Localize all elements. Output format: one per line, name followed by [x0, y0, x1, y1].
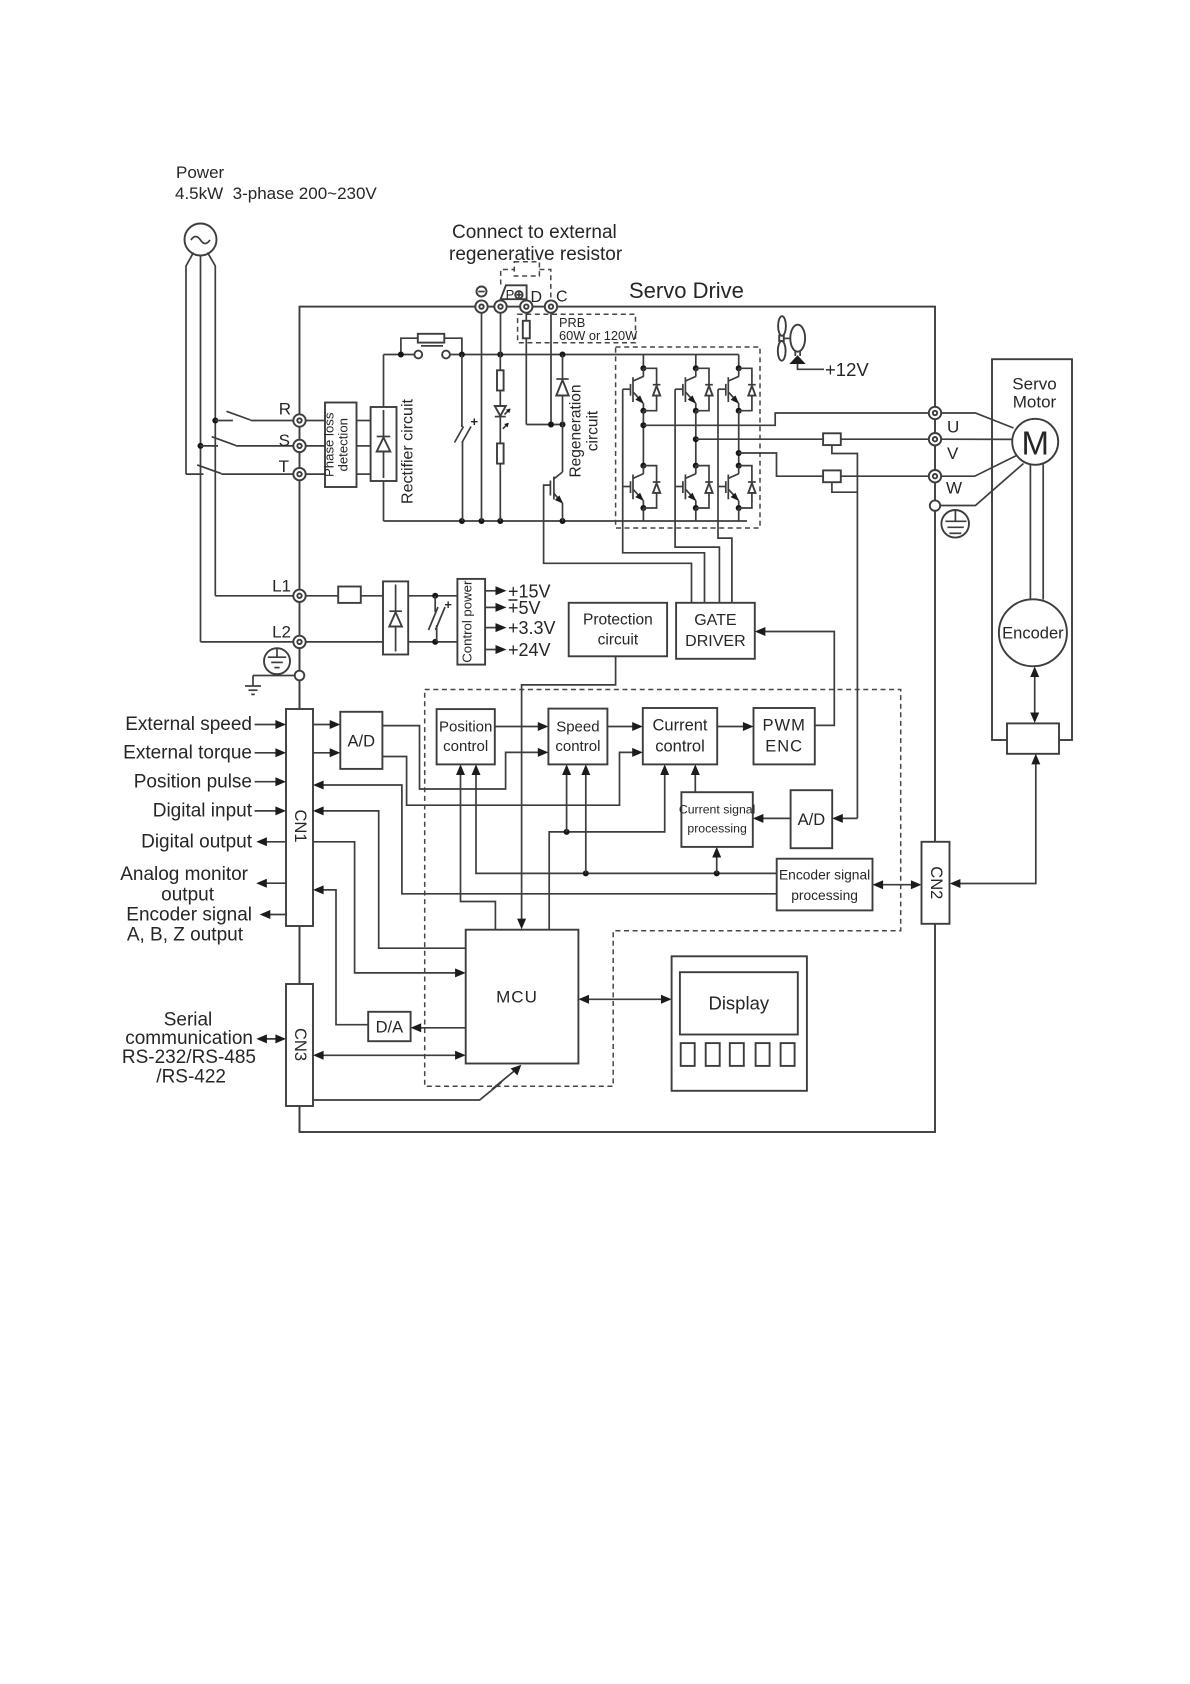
D/A converter: [368, 1012, 410, 1041]
switch R: [215, 411, 293, 420]
svg-text:+: +: [445, 598, 452, 612]
arrow position pulse into CN1: [255, 777, 286, 786]
svg-text:control: control: [555, 738, 600, 755]
wire T terminal to phase loss detection: [306, 473, 325, 475]
gate driver block: [676, 603, 755, 659]
IGBT Q2 (leg2 upper): [675, 365, 713, 413]
svg-text:processing: processing: [687, 822, 747, 836]
relay contact circles: [414, 346, 450, 359]
svg-text:ENC: ENC: [765, 738, 803, 756]
svg-text:External speed: External speed: [125, 714, 252, 735]
arrow digital input into CN1: [255, 806, 286, 815]
svg-text:Regeneration: Regeneration: [568, 384, 585, 477]
wire PWM ENC to gate driver: [755, 627, 835, 725]
wire leg1 mid: [642, 411, 644, 466]
svg-text:Connect to external: Connect to external: [452, 222, 617, 243]
svg-text:L2: L2: [272, 623, 291, 642]
switch T: [186, 465, 294, 474]
svg-text:Encoder signal: Encoder signal: [126, 904, 252, 925]
svg-text:circuit: circuit: [598, 632, 639, 649]
dashed wire to external regenerative resistor (right): [539, 270, 550, 301]
CN2 connector: [922, 842, 950, 924]
svg-text:DRIVER: DRIVER: [685, 633, 745, 650]
wire V to motor: [941, 438, 1012, 440]
wire fan to +12V: [798, 364, 825, 369]
CN1 connector: [286, 709, 313, 926]
motor M: [1012, 419, 1058, 465]
svg-text:External torque: External torque: [123, 742, 252, 763]
svg-text:PWM: PWM: [763, 717, 806, 735]
protection circuit block: [569, 603, 667, 657]
wire digital output CN1 to MCU: [313, 842, 466, 978]
terminal T: [293, 468, 305, 480]
wire ground terminal down to CN1: [299, 680, 301, 709]
A/D converter (current feedback): [791, 790, 833, 848]
motor connector box: [1007, 723, 1059, 753]
current control block: [643, 708, 717, 764]
svg-text:P: P: [506, 287, 515, 302]
arrow CN1 to A/D (torque): [313, 748, 340, 757]
gate wire leg1 to gate driver: [623, 389, 705, 603]
PWM ENC block: [754, 708, 815, 764]
arrow analog monitor from CN1: [256, 879, 286, 888]
arrow external torque into CN1: [255, 748, 286, 757]
CN3 connector: [286, 984, 313, 1106]
terminal P: [494, 300, 506, 312]
terminal C: [545, 300, 557, 312]
arrow encoder signal from CN1: [260, 910, 286, 919]
label Regeneration circuit: [568, 384, 602, 477]
wire phase W output: [739, 453, 929, 476]
svg-text:processing: processing: [791, 888, 858, 903]
speed control block: [548, 709, 607, 765]
MCU block: [466, 930, 579, 1064]
wire ground terminal to earth: [245, 676, 295, 695]
svg-text:detection: detection: [336, 418, 351, 472]
phase loss detection block: [322, 403, 357, 488]
wire R terminal to phase loss detection: [306, 420, 325, 422]
svg-text:4.5kW 3-phase 200~230V: 4.5kW 3-phase 200~230V: [175, 184, 377, 203]
IGBT Q3 (leg3 upper): [718, 365, 756, 413]
PRB dashed label box: [518, 314, 639, 343]
wire U to motor: [941, 413, 1013, 428]
arrow current sensors to A/D: [832, 814, 857, 823]
terminal L2: [293, 636, 305, 648]
svg-text:+12V: +12V: [825, 359, 869, 380]
MCU Display double arrow: [578, 995, 671, 1004]
node W tap: [736, 450, 742, 456]
IGBT Q6 (leg3 lower): [718, 463, 756, 511]
svg-text:A/D: A/D: [798, 811, 826, 829]
svg-text:R: R: [279, 400, 291, 419]
IGBT Q1 (leg1 upper): [623, 365, 661, 413]
svg-text:T: T: [279, 457, 289, 476]
current sensor on W: [823, 470, 841, 482]
switch S: [201, 437, 294, 446]
junction on phase C at R switch: [212, 418, 218, 424]
svg-text:Servo: Servo: [1012, 375, 1056, 394]
wire L2 down to ground terminal: [299, 648, 301, 671]
svg-text:Motor: Motor: [1013, 393, 1057, 412]
svg-text:Current: Current: [652, 717, 707, 735]
wire leg2 emitter to DC- bus: [695, 508, 697, 521]
junction on phase B at S switch: [198, 443, 204, 449]
wires phase loss detection to rectifier: [357, 421, 371, 475]
svg-text:/RS-422: /RS-422: [156, 1066, 226, 1087]
svg-text:A, B, Z output: A, B, Z output: [127, 924, 244, 945]
svg-text:Analog monitor: Analog monitor: [120, 864, 248, 885]
wire P terminal to DC+ bus: [500, 313, 502, 355]
svg-text:communication: communication: [125, 1028, 253, 1049]
AC source V1: [185, 224, 217, 256]
control power block: [457, 579, 485, 665]
current sensor on V: [823, 433, 841, 445]
arrow encoder signal processing to CN2: [873, 880, 922, 889]
wire current sensor V to A/D: [832, 445, 858, 818]
control filter capacitor: [429, 593, 452, 645]
svg-text:control: control: [655, 738, 705, 756]
node U tap: [640, 422, 646, 428]
svg-text:Power: Power: [176, 163, 225, 182]
svg-text:Current signal: Current signal: [679, 803, 756, 817]
circled minus symbol: [477, 287, 487, 297]
wire phase B to L2: [201, 641, 294, 643]
+5V output: [485, 598, 540, 618]
svg-text:GATE: GATE: [694, 612, 736, 629]
svg-text:+5V: +5V: [508, 598, 541, 618]
current signal processing block: [679, 792, 756, 847]
label Servo Motor: [1012, 375, 1056, 412]
display unit: [672, 956, 807, 1091]
charge LED: [495, 391, 511, 429]
node dots at regen junction: [548, 422, 566, 428]
arrow MCU to D/A: [411, 1023, 466, 1032]
svg-text:Control power: Control power: [459, 580, 474, 663]
wire D to regen node: [526, 424, 562, 426]
motor ground terminal: [930, 500, 940, 510]
svg-text:Phase loss: Phase loss: [322, 412, 337, 477]
svg-text:U: U: [947, 418, 959, 437]
wire protection circuit to MCU: [517, 656, 616, 929]
CN3 bottom wire to MCU: [313, 1065, 521, 1100]
terminal L1: [293, 590, 305, 602]
svg-text:Servo Drive: Servo Drive: [629, 278, 744, 303]
svg-text:L1: L1: [272, 577, 291, 596]
wire leg1 emitter to DC- bus: [642, 508, 644, 521]
soft charge resistor bypass: [401, 334, 462, 355]
svg-text:Encoder signal: Encoder signal: [779, 868, 870, 883]
wire CN3 to drive box bottom: [299, 1106, 301, 1132]
terminal S: [293, 440, 305, 452]
wire CN2 to motor connector: [950, 754, 1041, 888]
arrow external speed into CN1: [255, 720, 286, 729]
wire A/D out2 to current control: [382, 748, 642, 805]
gate wire leg3 to gate driver: [718, 389, 732, 603]
svg-text:Digital input: Digital input: [153, 800, 253, 821]
motor shaft to encoder: [1030, 464, 1043, 599]
branch encoder signal to current signal processing: [712, 847, 721, 874]
junction dots on DC- bus: [459, 518, 566, 524]
wire phase C to L1: [215, 595, 293, 597]
regen gate wire to gate driver: [544, 485, 692, 603]
junction dots on DC+ bus: [398, 352, 566, 358]
MCU to speed/current control riser: [549, 764, 669, 929]
arrow current signal processing to current control: [691, 764, 700, 792]
terminal R: [293, 414, 305, 426]
wire A/D out1 to speed control: [382, 726, 548, 789]
arrow A/D to current signal processing: [753, 814, 791, 823]
wire encoder signal to controls: [472, 764, 777, 876]
wire current sensor W to A/D: [832, 482, 858, 492]
label Serial communication: [122, 1010, 256, 1088]
bleeder resistor R2: [497, 417, 504, 521]
CN3 MCU double arrow: [313, 1051, 466, 1060]
ground terminal circle: [295, 671, 305, 681]
terminal W: [929, 470, 941, 482]
svg-text:S: S: [279, 431, 290, 450]
display buttons: [681, 1043, 795, 1066]
servo motor enclosure: [992, 359, 1072, 740]
DC link capacitor C1: [455, 355, 479, 522]
IGBT Q5 (leg2 lower): [675, 463, 713, 511]
branch encoder signal to speed control: [581, 764, 590, 873]
arrow speed control to current control: [607, 722, 642, 731]
svg-text:output: output: [161, 885, 215, 906]
wire rectifier DC+ riser: [383, 355, 385, 408]
svg-text:CN3: CN3: [291, 1028, 309, 1061]
bleeder resistor R1: [497, 355, 504, 391]
terminal V: [929, 433, 941, 445]
wire phase V output: [696, 438, 929, 440]
svg-text:+: +: [471, 414, 479, 429]
wire C terminal to regen node: [550, 313, 552, 425]
svg-text:circuit: circuit: [585, 410, 602, 451]
wire phase U output: [643, 413, 928, 425]
terminal U: [929, 407, 941, 419]
arrow digital output from CN1: [256, 837, 286, 846]
servo drive outer box: [300, 307, 936, 1132]
arrow CN1 to A/D (speed): [313, 720, 340, 729]
gate wire leg2 to gate driver: [675, 389, 719, 603]
DC+ bus: [384, 354, 739, 356]
wire ground to motor: [940, 464, 1023, 506]
serial double arrow into CN3: [256, 1034, 286, 1043]
regeneration IGBT Q7: [550, 472, 563, 521]
terminal D: [520, 300, 532, 312]
inner control dashed boundary: [425, 690, 901, 1087]
svg-text:MCU: MCU: [496, 988, 538, 1007]
svg-text:W: W: [946, 479, 962, 498]
svg-text:Position pulse: Position pulse: [134, 771, 252, 792]
protective earth symbol (input): [264, 648, 290, 674]
MCU to position control riser: [456, 764, 495, 929]
svg-text:Encoder: Encoder: [1002, 625, 1064, 643]
inverter dashed box: [616, 347, 760, 528]
rectifier block: [371, 407, 397, 481]
wire: phase A from source to T row: [186, 253, 194, 475]
arrow position control to speed control: [495, 722, 549, 731]
svg-text:CN2: CN2: [927, 866, 945, 899]
wire L1 to fuse: [306, 595, 339, 597]
regeneration diode D2: [556, 355, 568, 473]
inverter leg 1 rail: [642, 355, 644, 369]
wire control rectifier + to control power: [408, 595, 457, 597]
svg-text:+24V: +24V: [508, 640, 551, 660]
inverter leg 2 rail: [695, 355, 697, 369]
protective earth symbol (drive output): [941, 510, 969, 538]
DC- bus: [384, 520, 748, 522]
wire L2 to control rectifier: [306, 641, 383, 643]
position control block: [437, 709, 495, 764]
wire leg3 mid: [738, 411, 740, 466]
svg-text:Speed: Speed: [556, 719, 599, 736]
wire W to motor: [941, 456, 1016, 477]
P+ tag: [501, 285, 527, 302]
PRB internal resistor on D line: [523, 313, 530, 425]
svg-text:60W or 120W: 60W or 120W: [559, 328, 638, 343]
wire encoder signal processing to CN1 (A B Z out): [313, 781, 777, 894]
wire fuse to control rectifier: [361, 595, 383, 597]
control rectifier block: [383, 581, 408, 654]
wire leg3 emitter to DC- bus: [738, 508, 740, 521]
svg-text:RS-232/RS-485: RS-232/RS-485: [122, 1047, 256, 1068]
wire rectifier DC- drop: [383, 481, 385, 521]
svg-text:Display: Display: [708, 993, 769, 1014]
svg-text:control: control: [443, 738, 488, 755]
svg-text:M: M: [1021, 425, 1049, 462]
wire leg2 mid: [695, 411, 697, 466]
wire digital input feedback into CN1: [313, 806, 466, 948]
terminal minus: [475, 300, 487, 312]
wire S terminal to phase loss detection: [306, 445, 325, 447]
svg-text:A/D: A/D: [348, 733, 376, 751]
fan: [778, 316, 806, 364]
svg-text:D/A: D/A: [376, 1019, 404, 1037]
wire minus terminal to DC- bus: [481, 313, 483, 521]
dashed wire to external regenerative resistor (left): [501, 270, 515, 285]
inverter leg 3 rail: [738, 355, 740, 369]
svg-text:C: C: [556, 289, 568, 306]
arrow current control to PWM ENC: [717, 722, 753, 731]
encoder signal processing block: [777, 859, 873, 911]
+24V output: [485, 640, 550, 660]
CN1 to CN3 link: [299, 926, 301, 984]
encoder: [999, 599, 1067, 666]
svg-text:Rectifier circuit: Rectifier circuit: [400, 398, 417, 503]
svg-text:Position: Position: [439, 719, 492, 736]
svg-text:+3.3V: +3.3V: [508, 618, 556, 638]
node V tap: [693, 436, 699, 442]
+3.3V output: [485, 618, 555, 638]
A/D converter (input): [340, 712, 382, 769]
wire D/A to CN1 analog monitor: [313, 885, 368, 1024]
encoder to connector arrow: [1030, 667, 1039, 724]
external regenerative resistor (dashed): [514, 262, 539, 276]
svg-text:Protection: Protection: [583, 612, 653, 629]
wire: phase B from source to S row and L2: [200, 256, 202, 642]
wire control rectifier - to control power: [408, 641, 457, 643]
wire: phase C from source to R row and L1: [208, 253, 216, 596]
svg-text:V: V: [947, 444, 959, 463]
svg-text:CN1: CN1: [291, 809, 309, 842]
+15V output: [485, 581, 550, 601]
svg-text:Digital output: Digital output: [141, 831, 253, 852]
fuse F1: [338, 587, 361, 603]
IGBT Q4 (leg1 lower): [623, 463, 661, 511]
